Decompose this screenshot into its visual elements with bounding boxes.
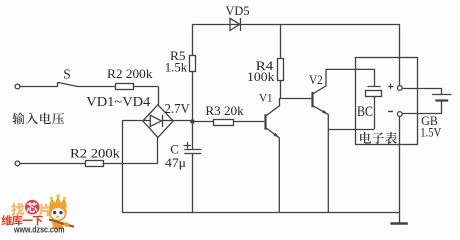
svg-text:2.7V: 2.7V xyxy=(165,101,191,116)
svg-text:1.5k: 1.5k xyxy=(165,61,188,75)
svg-text:100k: 100k xyxy=(247,70,275,84)
svg-text:R2 200k: R2 200k xyxy=(70,145,121,160)
svg-text:VD5: VD5 xyxy=(226,4,250,18)
svg-text:V1: V1 xyxy=(259,90,273,104)
svg-text:R3 20k: R3 20k xyxy=(205,103,244,118)
svg-text:VD1~VD4: VD1~VD4 xyxy=(86,94,150,109)
svg-text:47μ: 47μ xyxy=(165,155,186,170)
svg-text:www.dzsc.com: www.dzsc.com xyxy=(13,225,64,233)
svg-text:V2: V2 xyxy=(309,73,323,87)
svg-text:1.5V: 1.5V xyxy=(420,126,441,140)
svg-text:S: S xyxy=(63,66,71,81)
svg-text:BC: BC xyxy=(357,104,373,120)
svg-text:R2 200k: R2 200k xyxy=(107,66,153,81)
